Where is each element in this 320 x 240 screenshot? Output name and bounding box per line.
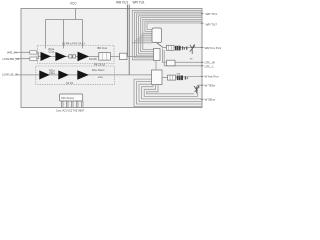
antenna switch header J3 <box>152 70 163 85</box>
svg-text:U2 R4 L4 R3 C4 L3: U2 R4 L4 R3 C4 L3 <box>62 41 85 45</box>
antenna symbol 2 <box>194 86 200 94</box>
svg-text:CPL_1: CPL_1 <box>205 64 215 68</box>
harness wire t2 <box>134 12 202 41</box>
harness wire m1 <box>132 43 153 60</box>
svg-text:R8 C8 L8: R8 C8 L8 <box>94 63 106 67</box>
harness wire b2 <box>137 82 203 104</box>
amp A1 <box>41 52 52 61</box>
svg-text:BD Fxxx: BD Fxxx <box>98 46 109 50</box>
svg-text:WR TU1: WR TU1 <box>206 12 218 16</box>
wire input 3 <box>16 74 39 76</box>
wire A out <box>110 55 119 57</box>
controller pins <box>62 101 84 108</box>
switch arm <box>157 43 164 48</box>
match box A out <box>120 53 128 59</box>
wire chain B <box>39 74 152 76</box>
label marks 1 <box>182 46 183 50</box>
harness group 2 into header J2 <box>132 33 153 60</box>
svg-text:XX XX: XX XX <box>66 82 73 85</box>
harness wire t3 <box>137 14 203 39</box>
coupler box 1 <box>167 45 175 50</box>
svg-text:Rx/x(P): Rx/x(P) <box>89 58 97 61</box>
harness group 3: header J3 to bottom ports (nested rings) <box>134 79 202 107</box>
svg-text:WR FU1: WR FU1 <box>116 1 128 5</box>
wire VCC feed stage1 <box>45 20 47 49</box>
harness wire t1 <box>132 10 202 42</box>
harness wire t4 <box>139 16 202 37</box>
amp B1 <box>39 70 50 79</box>
amplifier block B (dashed) <box>36 66 115 85</box>
amp B3 <box>77 70 89 80</box>
coupler box 2 <box>168 75 176 80</box>
harness wire b5 <box>144 85 202 97</box>
TX chain 2 <box>162 76 202 77</box>
wire VCC feed stage2 <box>63 20 65 49</box>
harness wire m4 <box>139 37 154 54</box>
filter BD Fxxx <box>99 52 111 60</box>
marks after filter 2 <box>185 76 186 79</box>
svg-text:WR TU7: WR TU7 <box>206 23 218 27</box>
svg-text:W SExx: W SExx <box>205 98 216 102</box>
svg-text:Rxxx Rxxxx: Rxxx Rxxxx <box>92 69 105 72</box>
harness wire m3 <box>137 39 154 56</box>
harness wire m5 <box>141 35 154 51</box>
matching network F2 <box>30 57 37 60</box>
svg-text:WR TU1: WR TU1 <box>133 1 145 5</box>
svg-text:W TE5x: W TE5x <box>205 83 216 87</box>
bias controller box <box>60 94 83 101</box>
svg-text:WR Fxx Px1: WR Fxx Px1 <box>205 46 222 50</box>
wire VCC feed stage3 <box>82 20 84 49</box>
lc filter (dark) 2 <box>177 76 183 81</box>
harness wire t8 <box>147 23 202 30</box>
wire diplex merge <box>37 52 40 56</box>
antenna symbol 1 <box>190 44 195 54</box>
svg-text:Cxxx VC1 VC2 TXE VBAT: Cxxx VC1 VC2 TXE VBAT <box>56 109 85 112</box>
svg-text:C21a: C21a <box>49 72 55 75</box>
coupler termination box <box>167 60 176 66</box>
matching network F1 <box>30 51 37 54</box>
harness wire b1 <box>134 79 202 107</box>
TX chain 1 <box>163 47 202 49</box>
coupling cap CA2 <box>73 55 76 58</box>
svg-text:C11a: C11a <box>49 51 55 54</box>
wire input 1 <box>15 51 30 53</box>
svg-text:W Ant Pxn: W Ant Pxn <box>205 75 219 79</box>
lc filter (dark) 1 <box>175 46 181 51</box>
svg-text:XXX Xxxxxx: XXX Xxxxxx <box>61 97 75 100</box>
wire WR TU1 vertical <box>128 5 130 75</box>
RF switch header J1 <box>152 28 162 43</box>
harness wire m6 <box>143 33 154 49</box>
amp B2 <box>58 70 69 79</box>
svg-text:VCC: VCC <box>70 2 77 6</box>
wire J2 to J3 <box>155 61 157 71</box>
harness wire t6 <box>143 19 202 33</box>
harness wire b6 <box>147 85 194 94</box>
coupler out wires <box>163 49 203 63</box>
amplifier block A (dashed) <box>38 46 115 64</box>
wire VCC drop from top border <box>75 9 77 20</box>
wire A out 2 <box>127 55 154 57</box>
harness wire m2 <box>134 41 153 58</box>
right harness: top fan to border <box>132 10 202 42</box>
wire chain A <box>40 55 99 57</box>
amp A3 <box>78 52 90 62</box>
wire VCC rail <box>46 19 83 21</box>
amp A2 <box>55 52 66 61</box>
coupling cap CA1 <box>69 55 72 58</box>
module outline (shaded PCB block) <box>21 9 202 108</box>
harness wire b3 <box>139 84 202 101</box>
harness wire b4 <box>142 85 202 99</box>
header J2 <box>154 49 161 61</box>
harness wire t7 <box>145 21 202 31</box>
wire input 2 <box>15 58 30 60</box>
harness wire t5 <box>141 18 202 36</box>
svg-text:xxxx: xxxx <box>98 76 104 79</box>
border exit ticks <box>201 14 204 100</box>
wire WR FU1 vertical <box>126 5 128 57</box>
